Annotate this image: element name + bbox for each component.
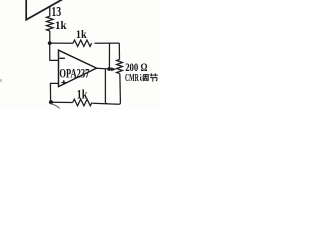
wire output down to bottom rail bbox=[105, 69, 107, 103]
label hanzi tiao (adjust) bbox=[140, 74, 148, 81]
wire pot top lead bbox=[118, 43, 120, 59]
op-amp U1 OPA237 triangle bbox=[59, 50, 97, 86]
wire R1 bottom to junction bbox=[49, 31, 51, 43]
minus sign (inverting input) bbox=[59, 57, 65, 59]
node bottom-left dot bbox=[49, 100, 53, 104]
node junction (inverting input net) bbox=[48, 41, 52, 45]
wire left rail to inverting input bbox=[50, 43, 59, 60]
resistor R2 1k (horizontal feedback) bbox=[73, 40, 92, 46]
potentiometer RP 200 ohm bbox=[117, 60, 123, 74]
wire feedback drop to output node bbox=[108, 43, 110, 69]
resistor R1 1k (vertical) bbox=[47, 16, 54, 31]
plus sign (non-inverting input) bbox=[61, 80, 66, 85]
label hanzi jie (adjust) bbox=[150, 73, 158, 81]
svg-text:1k: 1k bbox=[55, 18, 67, 32]
svg-text:1k: 1k bbox=[77, 87, 88, 101]
svg-text:CMR: CMR bbox=[125, 73, 139, 84]
wire arc to lower input (cut off) bbox=[51, 104, 60, 109]
svg-text:OPA237: OPA237 bbox=[59, 66, 89, 81]
wire pin 13 stub bbox=[49, 7, 51, 17]
svg-text:13: 13 bbox=[51, 4, 61, 19]
wire non-inverting input stub bbox=[50, 83, 58, 102]
wire junction to R2 bbox=[50, 42, 73, 44]
svg-text:1k: 1k bbox=[76, 27, 87, 41]
wire bottom rail bbox=[51, 102, 119, 104]
wire op-amp output bbox=[97, 67, 112, 70]
artifact left edge bbox=[0, 79, 2, 82]
wire R2 to top-right corner bbox=[95, 42, 120, 44]
wiper arrowhead bbox=[111, 67, 116, 71]
wire pot bottom lead bbox=[119, 74, 121, 105]
node output dot bbox=[107, 67, 111, 71]
svg-text:200 Ω: 200 Ω bbox=[125, 62, 147, 74]
op-amp A1 (previous stage, cut off at top-left) bbox=[26, 0, 62, 20]
resistor R3 1k (bottom) bbox=[73, 99, 92, 106]
